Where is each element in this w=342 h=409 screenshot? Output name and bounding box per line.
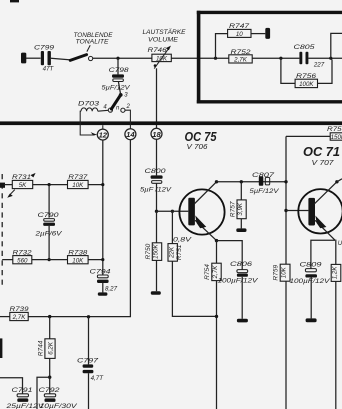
edge mark top [10,0,19,2]
svg-text:1,2K: 1,2K [332,266,339,280]
resistor R759 [272,264,290,409]
resistor 1,2K [331,264,341,409]
svg-text:R758: R758 [327,126,342,133]
capacitor C805 [294,44,325,69]
svg-text:5µF/12V: 5µF/12V [250,188,280,195]
wire [252,57,299,59]
svg-text:R744: R744 [38,340,45,356]
wire base [157,210,189,212]
wire to box [171,57,229,59]
svg-text:12: 12 [99,131,108,140]
resistor R747 [214,23,270,60]
svg-text:10K: 10K [72,257,84,264]
svg-text:10K: 10K [72,182,84,189]
connector pin 14 [125,129,136,140]
capacitor C809 [290,261,331,322]
svg-text:C794: C794 [90,268,111,275]
capacitor C792 [39,377,78,409]
capacitor C791 [0,378,45,409]
resistor R757 [229,182,246,232]
wire [308,57,342,59]
svg-text:C806: C806 [230,261,252,268]
svg-text:R750: R750 [145,243,152,259]
input terminal [21,53,26,64]
svg-text:22K: 22K [168,246,175,259]
svg-text:10µF/30V: 10µF/30V [40,404,78,409]
svg-text:OC 71: OC 71 [303,144,340,159]
R746 wiper wire down to pin 18 [156,68,158,128]
junction C790 bottom [48,258,51,261]
svg-text:100K: 100K [299,81,314,88]
junction R754/R751 [215,315,218,318]
inductor D703 [78,101,108,136]
svg-text:R754: R754 [204,264,211,280]
capacitor C800 [140,139,172,211]
svg-text:V 707: V 707 [312,158,335,167]
collector node OC71 [335,180,338,183]
svg-text:R757: R757 [229,201,236,217]
capacitor C807 [250,172,280,195]
capacitor C794 [90,268,118,295]
svg-text:C791: C791 [12,387,33,394]
svg-text:8,27: 8,27 [105,286,118,293]
capacitor C806 [218,261,259,322]
svg-text:6,2K: 6,2K [47,341,54,355]
wire pin14 column [89,140,131,317]
svg-text:TONBLENDE: TONBLENDE [74,33,114,39]
resistor R752 [229,49,252,64]
svg-text:U: U [338,240,342,247]
svg-text:2: 2 [126,104,131,110]
transistor OC71 V707 [298,182,342,240]
main bus line [0,121,342,125]
svg-text:R751: R751 [176,244,183,260]
switch TONBLENDE blade [70,33,113,61]
edge bar left [0,338,2,358]
svg-text:V 706: V 706 [187,142,209,151]
svg-text:25µF/12V: 25µF/12V [5,404,45,409]
capacitor C799 [34,44,55,72]
svg-text:D703: D703 [78,101,99,108]
svg-text:R759: R759 [272,264,279,280]
svg-text:10K: 10K [281,266,288,278]
dashed module frame [197,11,342,104]
svg-text:C800: C800 [145,168,166,175]
resistor R750 [145,211,162,295]
branch up to edge [331,33,342,58]
switch contacts 4 / n / 2 [103,92,130,128]
wire collector line [217,181,287,183]
svg-text:150K: 150K [331,134,342,141]
connector pin 18 [151,128,162,139]
collector node [215,180,218,183]
junction C797 [87,315,90,318]
wire volume line [93,57,152,59]
resistor R758 top right [286,126,342,141]
dashed boundary left [1,174,3,289]
resistor R756 [281,58,332,88]
wire base OC71 [286,210,308,212]
node base OC75 [155,210,158,213]
wire emitter to C806 [217,241,243,270]
node blob left edge upper line [0,183,5,188]
svg-text:3,9K: 3,9K [237,202,244,216]
wire lower left line [2,259,103,261]
wire [51,58,71,60]
wire [26,57,41,59]
resistor R732 [13,249,32,264]
svg-text:VOLUME: VOLUME [148,37,179,43]
transistor OC75 V706 [179,182,224,241]
resistor R739 [0,306,89,321]
capacitor C798 [102,58,131,93]
connector pin 12 [97,125,108,140]
svg-text:TONALITE: TONALITE [76,39,110,45]
junction C790 top [48,183,51,186]
junction R744 bottom [48,376,51,379]
potentiometer R731 [7,173,35,198]
svg-text:4,7T: 4,7T [91,375,105,382]
resistor R754 [204,241,221,409]
svg-text:47T: 47T [43,66,55,73]
capacitor C797 [77,317,104,409]
junction R744 [48,315,51,318]
svg-text:100µF/12V: 100µF/12V [290,279,331,285]
wire pin12 column [102,140,104,275]
svg-text:C792: C792 [39,387,60,394]
junction C798 tap [116,57,119,60]
svg-text:2µF/6V: 2µF/6V [34,230,62,237]
svg-text:0,8V: 0,8V [173,237,192,244]
svg-text:14: 14 [126,130,135,139]
emitter wires OC71 [311,240,335,268]
svg-text:C805: C805 [294,44,315,51]
svg-text:C799: C799 [34,44,54,51]
svg-text:560: 560 [17,257,28,264]
emitter node 0,8V [215,239,218,242]
svg-text:10K: 10K [156,55,168,62]
svg-text:LAUTSTÄRKE: LAUTSTÄRKE [143,29,187,36]
potentiometer R746 [143,29,187,68]
svg-text:150K: 150K [153,244,160,259]
svg-text:2,7K: 2,7K [212,265,219,280]
wire upper left line [4,184,103,186]
svg-text:100µF/12V: 100µF/12V [218,279,259,285]
svg-text:5µF/12V: 5µF/12V [102,84,131,91]
svg-text:C797: C797 [77,358,98,365]
svg-text:10: 10 [236,31,243,38]
svg-text:2,7K: 2,7K [233,56,248,63]
resistor R738 [68,249,89,264]
capacitor C790 [34,185,62,260]
wire to bottom edge [37,377,50,409]
svg-text:C809: C809 [300,261,322,268]
resistor R744 [38,317,56,378]
resistor R737 [68,174,89,189]
svg-text:2,7K: 2,7K [12,314,27,321]
svg-text:R746: R746 [148,47,167,54]
svg-text:C798: C798 [109,67,129,74]
svg-text:5K: 5K [19,182,27,189]
resistor R751 [168,211,217,316]
svg-text:227: 227 [313,62,325,69]
svg-text:18: 18 [152,130,161,139]
wire OC71 base column [285,136,287,264]
